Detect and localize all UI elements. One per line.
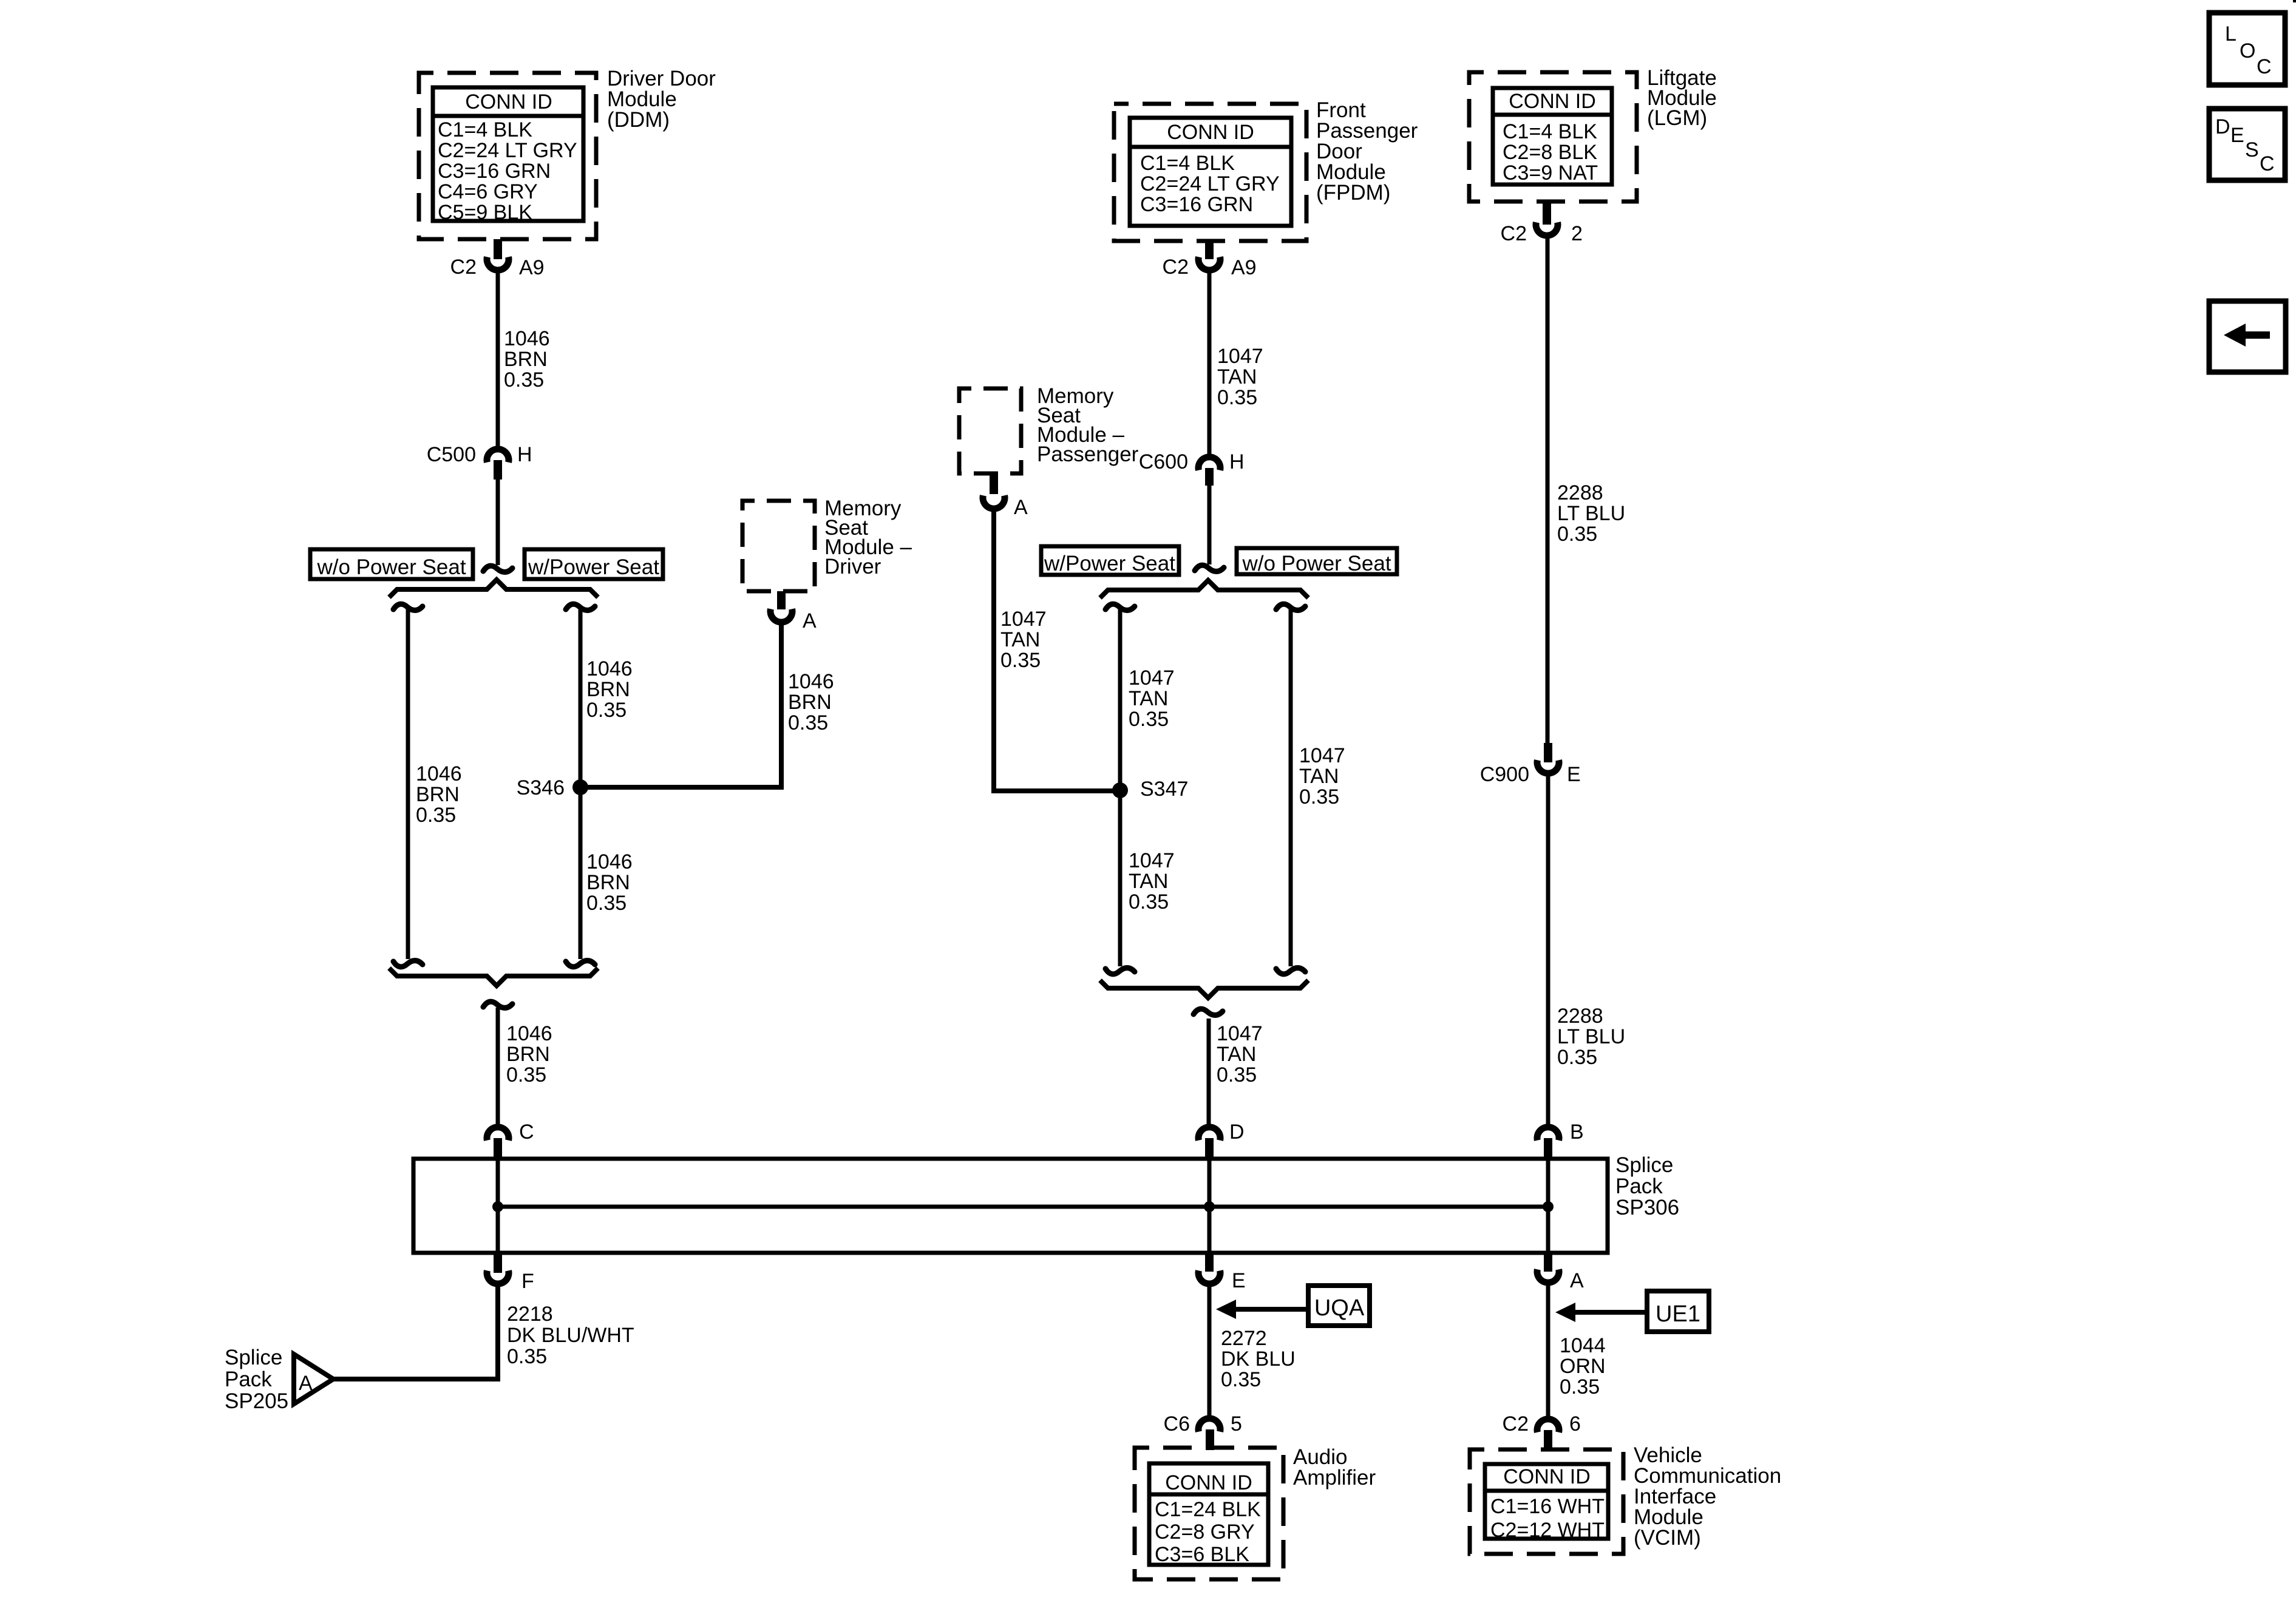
svg-text:S347: S347 bbox=[1140, 778, 1188, 801]
Memory Seat Module - Passenger dashed box bbox=[959, 388, 1021, 473]
svg-text:1044: 1044 bbox=[1560, 1334, 1606, 1357]
option box w/Power Seat bbox=[525, 549, 663, 579]
terminal B stub bbox=[1544, 1138, 1552, 1160]
C leg wire inside SP306 bbox=[496, 1159, 500, 1207]
svg-text:0.35: 0.35 bbox=[507, 1345, 547, 1368]
svg-text:1047: 1047 bbox=[1000, 608, 1047, 631]
FPDM right branch top squiggle bbox=[1276, 604, 1305, 610]
svg-text:0.35: 0.35 bbox=[1560, 1375, 1600, 1398]
svg-text:Splice: Splice bbox=[225, 1346, 282, 1369]
svg-text:0.35: 0.35 bbox=[1217, 1063, 1257, 1086]
svg-text:BRN: BRN bbox=[586, 871, 630, 894]
Audio Amplifier dashed module outline bbox=[1135, 1448, 1283, 1579]
svg-text:w/o Power Seat: w/o Power Seat bbox=[1241, 552, 1391, 575]
LGM inline connector cup C2/2 bbox=[1536, 222, 1558, 236]
svg-text:(DDM): (DDM) bbox=[607, 108, 670, 132]
Audio Amplifier connector id rows bbox=[1155, 1498, 1261, 1566]
B leg wire inside SP306 bbox=[1546, 1159, 1550, 1207]
svg-text:C3=16 GRN: C3=16 GRN bbox=[1140, 193, 1253, 216]
SP306 terminal C dome bbox=[487, 1127, 509, 1141]
Splice Pack SP205 triangle symbol bbox=[294, 1354, 333, 1404]
svg-text:DK BLU: DK BLU bbox=[1221, 1347, 1296, 1371]
wire label 2272 DK BLU 0.35 bbox=[1221, 1327, 1296, 1391]
wire option squiggle below C600 bbox=[1195, 565, 1224, 571]
svg-text:0.35: 0.35 bbox=[1299, 785, 1339, 808]
svg-text:0.35: 0.35 bbox=[1000, 649, 1041, 672]
svg-text:C2: C2 bbox=[1503, 1412, 1529, 1436]
svg-text:C3=16 GRN: C3=16 GRN bbox=[438, 160, 551, 183]
svg-text:C2=24 LT GRY: C2=24 LT GRY bbox=[438, 139, 577, 162]
wire 1046 BRN below C500 bbox=[496, 480, 500, 565]
svg-text:Pack: Pack bbox=[1615, 1175, 1663, 1198]
svg-text:0.35: 0.35 bbox=[1557, 523, 1597, 546]
svg-text:A: A bbox=[299, 1372, 313, 1395]
SP306 terminal B dome bbox=[1537, 1127, 1559, 1141]
svg-text:C: C bbox=[519, 1120, 534, 1144]
C900 stub bbox=[1544, 743, 1552, 762]
LOC legend box bbox=[2209, 13, 2285, 85]
terminal F stub bbox=[494, 1253, 502, 1273]
svg-text:S: S bbox=[2245, 138, 2259, 161]
squiggle below lower brace (FPDM) bbox=[1194, 1009, 1223, 1015]
connector C2 dome (VCIM) bbox=[1537, 1419, 1559, 1432]
page corner mark bbox=[2293, 0, 2296, 2]
wire 2288 LT BLU from LGM bbox=[1546, 238, 1550, 744]
Vehicle Communication Interface Module (VCIM) CONN ID header separator bbox=[1485, 1489, 1608, 1493]
wire label 1047 TAN 0.35 (passenger memory seat) bbox=[1000, 608, 1047, 672]
UE1 option arrow bbox=[1555, 1303, 1645, 1322]
Memory Seat Module Driver connector cup bbox=[770, 609, 792, 622]
svg-text:0.35: 0.35 bbox=[1221, 1368, 1261, 1391]
option box w/o Power Seat (FPDM) bbox=[1237, 548, 1397, 574]
UQA option arrow bbox=[1216, 1300, 1307, 1319]
svg-text:(VCIM): (VCIM) bbox=[1634, 1526, 1701, 1550]
svg-text:C2=24 LT GRY: C2=24 LT GRY bbox=[1140, 172, 1280, 195]
svg-text:Amplifier: Amplifier bbox=[1293, 1466, 1376, 1490]
wire 2218 DK BLU/WHT to SP205 bbox=[333, 1286, 498, 1379]
splice S347 bbox=[1112, 782, 1128, 798]
svg-text:C2: C2 bbox=[450, 256, 477, 279]
Front Passenger Door Module (FPDM) connector id rows bbox=[1140, 152, 1280, 216]
svg-text:TAN: TAN bbox=[1129, 687, 1168, 710]
svg-text:1047: 1047 bbox=[1129, 849, 1175, 872]
wire 1046 BRN from DDM bbox=[496, 273, 500, 447]
svg-text:1046: 1046 bbox=[504, 327, 550, 350]
Splice Pack SP205 label bbox=[225, 1346, 288, 1413]
svg-text:C500: C500 bbox=[427, 443, 476, 466]
svg-text:BRN: BRN bbox=[416, 783, 460, 806]
FPDM right branch bottom squiggle bbox=[1276, 968, 1305, 974]
svg-text:0.35: 0.35 bbox=[506, 1063, 546, 1086]
svg-text:C2=8 GRY: C2=8 GRY bbox=[1155, 1520, 1255, 1544]
C600 stub bbox=[1205, 468, 1214, 486]
svg-text:2288: 2288 bbox=[1557, 1005, 1603, 1028]
svg-text:E: E bbox=[1567, 763, 1581, 786]
Memory Seat Module Passenger connector cup bbox=[983, 495, 1005, 509]
UE1 RPO box bbox=[1647, 1291, 1709, 1332]
svg-text:C2=8 BLK: C2=8 BLK bbox=[1503, 141, 1597, 164]
wire from passenger memory seat to S347 bbox=[994, 511, 1120, 791]
svg-text:(LGM): (LGM) bbox=[1647, 106, 1707, 130]
left branch wire label bbox=[416, 762, 462, 827]
svg-text:A9: A9 bbox=[1231, 256, 1257, 279]
svg-text:TAN: TAN bbox=[1129, 870, 1168, 893]
upper option brace (FPDM) bbox=[1100, 580, 1308, 598]
svg-text:C600: C600 bbox=[1139, 450, 1188, 473]
F leg wire inside SP306 bbox=[496, 1207, 500, 1253]
svg-text:CONN ID: CONN ID bbox=[1165, 1471, 1252, 1494]
svg-text:BRN: BRN bbox=[788, 691, 832, 714]
Liftgate Module (LGM) CONN ID table box bbox=[1493, 88, 1612, 185]
wire label 1046 BRN 0.35 lower bbox=[506, 1022, 552, 1086]
FPDM connector stub bbox=[1205, 241, 1214, 259]
C2 stub (VCIM) bbox=[1544, 1430, 1552, 1449]
svg-text:1047: 1047 bbox=[1129, 666, 1175, 690]
svg-text:C1=4 BLK: C1=4 BLK bbox=[438, 118, 532, 141]
svg-text:CONN ID: CONN ID bbox=[465, 90, 552, 114]
svg-text:0.35: 0.35 bbox=[586, 892, 627, 915]
svg-text:C3=6 BLK: C3=6 BLK bbox=[1155, 1543, 1249, 1566]
svg-text:SP306: SP306 bbox=[1615, 1196, 1679, 1219]
FPDM right option branch wire 1047 bbox=[1289, 609, 1293, 966]
wire 1047 TAN below C600 bbox=[1207, 486, 1212, 564]
Front Passenger Door Module (FPDM) dashed module outline bbox=[1114, 104, 1306, 241]
wire label 1047 TAN 0.35 bbox=[1217, 345, 1263, 409]
svg-text:C900: C900 bbox=[1480, 763, 1529, 786]
svg-text:w/Power Seat: w/Power Seat bbox=[528, 555, 659, 579]
FPDM right branch wire label bbox=[1299, 744, 1345, 808]
svg-text:0.35: 0.35 bbox=[788, 711, 828, 734]
svg-text:D: D bbox=[2215, 115, 2230, 138]
svg-text:L: L bbox=[2225, 22, 2237, 46]
svg-text:TAN: TAN bbox=[1000, 628, 1040, 651]
option box w/o Power Seat bbox=[310, 549, 473, 579]
wire label 1046 BRN 0.35 bbox=[504, 327, 550, 392]
wire label 2218 DK BLU/WHT 0.35 bbox=[507, 1303, 634, 1368]
svg-text:C1=4 BLK: C1=4 BLK bbox=[1140, 152, 1235, 175]
svg-text:6: 6 bbox=[1569, 1412, 1581, 1436]
right branch upper wire label bbox=[586, 657, 633, 722]
svg-text:UQA: UQA bbox=[1314, 1295, 1365, 1321]
svg-text:Splice: Splice bbox=[1615, 1153, 1673, 1177]
option box w/Power Seat (FPDM) bbox=[1041, 546, 1179, 575]
svg-text:0.35: 0.35 bbox=[1129, 708, 1169, 731]
Splice Pack SP306 label bbox=[1615, 1153, 1679, 1219]
bus junction dot C leg bbox=[492, 1201, 503, 1212]
svg-text:BRN: BRN bbox=[504, 348, 548, 371]
Audio Amplifier CONN ID header separator bbox=[1149, 1493, 1268, 1497]
svg-text:w/Power Seat: w/Power Seat bbox=[1044, 552, 1175, 575]
svg-text:E: E bbox=[1232, 1269, 1246, 1292]
C6 stub bbox=[1206, 1429, 1214, 1450]
SP306 terminal E cup bbox=[1198, 1270, 1220, 1284]
svg-text:1046: 1046 bbox=[416, 762, 462, 785]
svg-text:C4=6 GRY: C4=6 GRY bbox=[438, 180, 538, 203]
svg-text:SP205: SP205 bbox=[225, 1389, 288, 1413]
lower option brace (DDM) bbox=[389, 968, 598, 986]
svg-text:A9: A9 bbox=[519, 256, 545, 279]
svg-text:A: A bbox=[803, 609, 817, 632]
svg-text:BRN: BRN bbox=[586, 678, 630, 701]
terminal A stub bbox=[1544, 1253, 1552, 1272]
wire label 1044 ORN 0.35 bbox=[1560, 1334, 1606, 1398]
Memory Seat Module Driver connector stub bbox=[777, 591, 786, 609]
Vehicle Communication Interface Module (VCIM) CONN ID table box bbox=[1485, 1464, 1608, 1539]
FPDM left branch lower wire label bbox=[1129, 849, 1175, 914]
svg-text:1047: 1047 bbox=[1299, 744, 1345, 767]
svg-text:H: H bbox=[517, 443, 532, 466]
DDM name label bbox=[607, 67, 716, 132]
svg-text:C2=12 WHT: C2=12 WHT bbox=[1490, 1519, 1605, 1542]
D leg wire inside SP306 bbox=[1207, 1159, 1212, 1207]
right branch lower wire label bbox=[586, 850, 633, 915]
DESC legend box bbox=[2209, 109, 2285, 180]
Driver Door Module (DDM) CONN ID header separator bbox=[433, 114, 583, 118]
FPDM inline connector cup C2/A9 bbox=[1198, 257, 1220, 270]
svg-text:E: E bbox=[2230, 124, 2244, 147]
wire from S346 to Memory Seat Module - Driver bbox=[580, 625, 781, 787]
E leg wire inside SP306 bbox=[1207, 1207, 1212, 1253]
Memory Seat Module - Driver dashed box bbox=[742, 501, 815, 591]
svg-text:TAN: TAN bbox=[1217, 1043, 1256, 1066]
LGM connector stub bbox=[1543, 202, 1551, 225]
upper option brace (DDM) bbox=[389, 580, 598, 597]
svg-text:5: 5 bbox=[1231, 1412, 1242, 1436]
Memory Seat Module - Passenger label bbox=[1037, 384, 1139, 466]
FPDM name label bbox=[1316, 98, 1418, 205]
svg-text:(FPDM): (FPDM) bbox=[1316, 181, 1390, 205]
wire label 2288 LT BLU 0.35 upper bbox=[1557, 481, 1625, 546]
wire 2272 DK BLU to Audio Amplifier bbox=[1207, 1286, 1212, 1416]
wire 1044 ORN to VCIM bbox=[1546, 1285, 1550, 1416]
right option branch wire 1046 bbox=[579, 609, 583, 959]
left branch bottom squiggle bbox=[393, 961, 423, 967]
Front Passenger Door Module (FPDM) CONN ID header separator bbox=[1130, 145, 1291, 149]
bus junction dot B leg bbox=[1543, 1201, 1554, 1212]
svg-text:1047: 1047 bbox=[1217, 345, 1263, 368]
svg-text:0.35: 0.35 bbox=[1557, 1046, 1597, 1069]
svg-text:LT BLU: LT BLU bbox=[1557, 1025, 1625, 1048]
svg-text:2218: 2218 bbox=[507, 1303, 553, 1326]
Memory Seat Module - Driver label bbox=[824, 497, 912, 578]
svg-text:UE1: UE1 bbox=[1656, 1301, 1700, 1327]
A leg wire inside SP306 bbox=[1546, 1207, 1550, 1253]
svg-text:C5=9 BLK: C5=9 BLK bbox=[438, 201, 532, 224]
right branch top squiggle bbox=[566, 604, 595, 610]
svg-text:2272: 2272 bbox=[1221, 1327, 1267, 1350]
Driver Door Module (DDM) connector id rows bbox=[438, 118, 577, 224]
svg-text:CONN ID: CONN ID bbox=[1509, 90, 1596, 113]
svg-text:C3=9 NAT: C3=9 NAT bbox=[1503, 161, 1598, 185]
Liftgate Module (LGM) dashed module outline bbox=[1469, 72, 1637, 202]
squiggle below lower brace (DDM) bbox=[483, 1002, 512, 1008]
Liftgate Module (LGM) CONN ID header separator bbox=[1493, 113, 1612, 117]
svg-text:Driver: Driver bbox=[824, 555, 881, 578]
UQA RPO box bbox=[1308, 1286, 1370, 1326]
svg-text:2288: 2288 bbox=[1557, 481, 1603, 504]
lower option brace (FPDM) bbox=[1100, 980, 1308, 998]
left option branch wire 1046 bbox=[406, 609, 410, 959]
wire label 2288 LT BLU 0.35 lower bbox=[1557, 1005, 1625, 1069]
wire 1047 TAN to splice pack D bbox=[1207, 1019, 1211, 1125]
svg-text:C2: C2 bbox=[1501, 222, 1527, 245]
svg-text:S346: S346 bbox=[517, 776, 565, 799]
svg-text:0.35: 0.35 bbox=[1217, 386, 1257, 409]
connector C6 dome bbox=[1198, 1419, 1220, 1432]
svg-text:O: O bbox=[2240, 39, 2255, 63]
SP306 terminal F cup bbox=[487, 1270, 509, 1284]
svg-text:0.35: 0.35 bbox=[504, 368, 544, 392]
svg-text:C1=24 BLK: C1=24 BLK bbox=[1155, 1498, 1261, 1521]
svg-text:w/o Power Seat: w/o Power Seat bbox=[316, 555, 466, 579]
terminal C stub bbox=[494, 1138, 502, 1160]
svg-text:Passenger: Passenger bbox=[1037, 442, 1139, 466]
wire 1046 BRN to splice pack C bbox=[496, 1008, 500, 1125]
wire option squiggle below C500 bbox=[483, 566, 512, 572]
Driver Door Module (DDM) dashed module outline bbox=[419, 73, 596, 239]
svg-text:C1=16 WHT: C1=16 WHT bbox=[1490, 1495, 1605, 1518]
wire 1047 TAN from FPDM bbox=[1207, 273, 1212, 454]
splice S346 bbox=[572, 779, 588, 795]
svg-text:A: A bbox=[1570, 1269, 1584, 1292]
svg-text:1047: 1047 bbox=[1217, 1022, 1263, 1045]
svg-text:B: B bbox=[1570, 1120, 1584, 1144]
Driver Door Module (DDM) CONN ID table box bbox=[433, 87, 583, 221]
svg-text:0.35: 0.35 bbox=[586, 699, 627, 722]
Vehicle Communication Interface Module (VCIM) dashed module outline bbox=[1470, 1449, 1623, 1554]
Audio Amplifier name label bbox=[1293, 1445, 1376, 1490]
wire label 1046 BRN 0.35 (driver memory seat) bbox=[788, 670, 834, 734]
svg-text:1046: 1046 bbox=[788, 670, 834, 693]
svg-text:BRN: BRN bbox=[506, 1043, 550, 1066]
svg-text:CONN ID: CONN ID bbox=[1167, 121, 1254, 144]
bus junction dot D leg bbox=[1204, 1201, 1215, 1212]
svg-text:CONN ID: CONN ID bbox=[1503, 1465, 1591, 1488]
terminal E stub bbox=[1205, 1253, 1214, 1272]
wire 2288 LT BLU below C900 bbox=[1546, 776, 1550, 1125]
wire label 1047 TAN 0.35 lower (FPDM) bbox=[1217, 1022, 1263, 1086]
svg-text:C: C bbox=[2257, 55, 2272, 78]
svg-text:D: D bbox=[1229, 1120, 1245, 1144]
FPDM left option branch wire 1047 bbox=[1118, 609, 1123, 966]
svg-text:1046: 1046 bbox=[586, 850, 633, 873]
terminal D stub bbox=[1205, 1138, 1214, 1160]
svg-text:F: F bbox=[521, 1270, 534, 1293]
svg-text:C6: C6 bbox=[1164, 1412, 1190, 1436]
FPDM left branch bottom squiggle bbox=[1106, 968, 1135, 974]
svg-text:H: H bbox=[1229, 450, 1245, 473]
FPDM left branch top squiggle bbox=[1106, 604, 1135, 610]
DDM inline connector cup C2/A9 bbox=[487, 257, 509, 270]
Liftgate Module (LGM) connector id rows bbox=[1503, 120, 1598, 185]
SP306 internal bus wire bbox=[498, 1205, 1548, 1209]
Splice Pack SP306 box bbox=[413, 1159, 1608, 1253]
svg-text:LT BLU: LT BLU bbox=[1557, 502, 1625, 525]
connector C900 cup bbox=[1537, 760, 1559, 773]
svg-text:C2: C2 bbox=[1163, 256, 1189, 279]
svg-text:0.35: 0.35 bbox=[1129, 890, 1169, 914]
SP306 terminal A cup bbox=[1537, 1269, 1559, 1283]
right branch bottom squiggle bbox=[566, 961, 595, 967]
Front Passenger Door Module (FPDM) CONN ID table box bbox=[1130, 118, 1291, 226]
connector C600 dome bbox=[1198, 457, 1220, 470]
svg-text:ORN: ORN bbox=[1560, 1355, 1606, 1378]
svg-text:2: 2 bbox=[1571, 222, 1583, 245]
svg-text:0.35: 0.35 bbox=[416, 804, 456, 827]
svg-text:TAN: TAN bbox=[1299, 765, 1339, 788]
LGM name label bbox=[1647, 66, 1717, 130]
svg-text:TAN: TAN bbox=[1217, 365, 1257, 388]
svg-text:A: A bbox=[1014, 496, 1028, 519]
connector C500 dome bbox=[487, 449, 509, 463]
svg-text:Pack: Pack bbox=[225, 1368, 272, 1391]
svg-text:C: C bbox=[2260, 152, 2275, 175]
svg-text:DK BLU/WHT: DK BLU/WHT bbox=[507, 1324, 634, 1347]
svg-text:1046: 1046 bbox=[506, 1022, 552, 1045]
svg-text:1046: 1046 bbox=[586, 657, 633, 680]
left branch top squiggle bbox=[393, 604, 423, 610]
VCIM name label bbox=[1634, 1443, 1781, 1550]
DDM connector stub bbox=[494, 239, 502, 259]
Audio Amplifier CONN ID table box bbox=[1149, 1463, 1268, 1565]
C500 stub bbox=[494, 460, 502, 480]
Vehicle Communication Interface Module (VCIM) connector id rows bbox=[1490, 1495, 1605, 1542]
FPDM left branch wire label bbox=[1129, 666, 1175, 731]
svg-text:C1=4 BLK: C1=4 BLK bbox=[1503, 120, 1597, 143]
back-arrow navigation box bbox=[2209, 301, 2286, 372]
SP306 terminal D dome bbox=[1198, 1127, 1220, 1141]
Memory Seat Module Passenger connector stub bbox=[990, 475, 998, 494]
